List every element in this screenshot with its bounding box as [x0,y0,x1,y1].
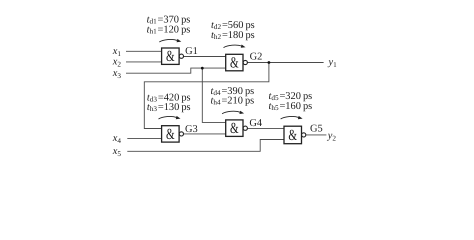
svg-text:G4: G4 [249,118,263,129]
timing annotation for G4: td4 th4 [211,86,255,107]
timing annotation for G2: td2 th2 [211,20,255,41]
wire x3 to node A and G2 bottom input [126,68,226,73]
wire x4 to G3 bottom input [127,137,161,139]
wire G4 output to G5 top input [247,127,284,129]
nand gate G1 [162,46,198,65]
nand gate G5 [284,124,323,145]
wire G2 output to y1 [247,62,323,64]
curved arrow to G4 [222,111,244,114]
svg-text:&: & [288,127,297,144]
nand gate G3 [162,124,198,143]
timing annotation for G1: td1 th1 [147,15,191,36]
nand gate G2 [226,52,263,72]
curved arrow to G3 [159,116,181,119]
svg-text:&: & [166,48,175,65]
svg-text:&: & [230,54,239,71]
svg-text:&: & [166,126,175,143]
wire x2 to G1 bottom input [126,61,162,63]
nand gate G4 [226,118,263,137]
timing annotation for G3: td3 th3 [147,92,191,113]
wire from node A down to G4 top input [202,68,225,122]
curved arrow to G1 [159,39,181,42]
svg-text:G5: G5 [310,124,323,135]
svg-text:G1: G1 [185,46,198,57]
svg-text:&: & [230,120,239,137]
wire x5 to G5 bottom input [127,140,284,152]
node A junction dot [201,67,204,70]
node B junction dot on y1 wire [268,61,271,64]
wire G1 output to G2 top input [184,56,226,58]
timing annotation for G5: td5 th5 [269,91,313,112]
curved arrow to G5 [281,116,303,119]
wire feedback from G2 output node down and left to G3 top input [144,63,269,129]
wire G5 output to y2 [306,134,327,136]
svg-text:G3: G3 [185,124,198,135]
curved arrow to G2 [224,45,246,48]
svg-text:G2: G2 [250,52,263,63]
wire x1 to G1 top input [126,50,162,52]
wire G3 output to G4 bottom input [184,133,226,135]
